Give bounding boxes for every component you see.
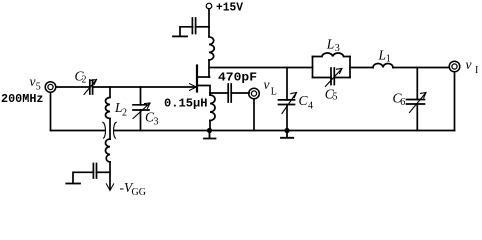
- bus ground bottom right segment: [114, 130, 454, 132]
- capacitor bypass bottom: right wire: [97, 171, 111, 173]
- terminal vI: [449, 61, 460, 72]
- wire drain vertical: [208, 60, 210, 77]
- tank right side: [349, 57, 351, 78]
- inductor L3: [313, 53, 351, 57]
- svg-text:v: v: [30, 74, 36, 89]
- wire tank to L1: [350, 67, 373, 69]
- capacitor C4 plates: [279, 100, 295, 105]
- node dot source ground: [207, 128, 212, 133]
- wire C4 branch: [286, 68, 288, 100]
- capacitor bypass top: right wire: [196, 26, 209, 28]
- wire drain stub: [197, 76, 210, 78]
- svg-text:v: v: [466, 57, 472, 72]
- wire C4 to bus: [286, 105, 288, 131]
- wire bypass bottom left: [73, 172, 93, 183]
- svg-text:C: C: [299, 93, 309, 108]
- arrow -VGG: [106, 184, 113, 191]
- wire L1 to vI: [393, 67, 449, 69]
- svg-text:200MHz: 200MHz: [1, 92, 44, 106]
- svg-text:I: I: [475, 65, 478, 76]
- wire choke to -VGG: [109, 162, 111, 189]
- svg-text:1: 1: [386, 54, 391, 65]
- wire source inductor to bus: [209, 121, 211, 131]
- wire L2 to choke (crosses bus): [109, 119, 111, 140]
- wire vI down to bus: [454, 72, 456, 131]
- wire bypass top left: [180, 27, 192, 36]
- inductor L2: [106, 98, 111, 119]
- svg-text:L: L: [271, 87, 277, 98]
- svg-text:470pF: 470pF: [218, 70, 257, 84]
- wire 470pF to vL: [231, 92, 249, 94]
- svg-text:6: 6: [400, 97, 405, 108]
- inductor RFC drain choke: [209, 37, 214, 60]
- terminal vL: [249, 88, 260, 99]
- wire 470pF branch: [210, 92, 228, 94]
- svg-text:L: L: [326, 36, 335, 51]
- ground bottom left: [66, 183, 80, 185]
- capacitor bypass bottom plates: [93, 164, 96, 179]
- tank L3/C5 left side: [312, 57, 314, 78]
- crossover hop marks: [103, 122, 116, 138]
- capacitor C2 plates: [90, 80, 93, 94]
- svg-text:3: 3: [335, 43, 340, 54]
- svg-text:v: v: [264, 77, 270, 92]
- capacitor C5 plates: [331, 68, 334, 85]
- svg-text:5: 5: [333, 92, 338, 103]
- capacitor C4 arrow: [282, 93, 297, 114]
- capacitor C3 arrow: [133, 103, 150, 119]
- wire C3 branch: [140, 87, 142, 105]
- svg-text:2: 2: [82, 75, 87, 86]
- svg-text:L: L: [378, 48, 387, 63]
- inductor L1: [373, 64, 393, 68]
- svg-text:GG: GG: [132, 187, 146, 196]
- svg-text:3: 3: [154, 117, 159, 128]
- capacitor C5 arrow: [326, 69, 343, 87]
- svg-text:2: 2: [122, 108, 127, 119]
- wire C6 to bus: [416, 104, 418, 131]
- capacitor 470pF plates: [228, 84, 231, 102]
- wire vL down to bus: [253, 99, 255, 131]
- transistor Q1 gate arrow: [190, 84, 197, 91]
- wire gate from input: [93, 86, 196, 88]
- wire input to C2: [56, 86, 90, 88]
- svg-text:5: 5: [36, 82, 41, 93]
- wire C6 branch: [416, 68, 418, 100]
- capacitor C5 bottom branch: [313, 77, 351, 79]
- transistor Q1 source stub: [197, 86, 210, 96]
- bus ground bottom left segment: [51, 130, 105, 132]
- ground top: [173, 35, 187, 37]
- svg-text:+15V: +15V: [216, 0, 244, 14]
- capacitor C6 arrow: [410, 93, 427, 113]
- ground C4: [281, 131, 293, 138]
- capacitor C2 arrow: [84, 80, 97, 95]
- inductor RFC gate choke: [106, 139, 111, 162]
- node dot C4 ground: [284, 128, 289, 133]
- inductor source 0.15uH: [210, 95, 215, 121]
- wire C3 to bus: [140, 110, 142, 131]
- wire v5 down: [50, 93, 52, 131]
- wire top drain to tank: [209, 67, 313, 69]
- wire L2 branch down: [109, 87, 111, 97]
- wire +15V feed down: [208, 9, 210, 37]
- capacitor C3 plates: [133, 105, 149, 110]
- terminal +15V: [206, 3, 212, 9]
- svg-text:0.15µH: 0.15µH: [164, 96, 208, 110]
- transistor Q1 channel: [196, 66, 198, 92]
- terminal v5: [45, 82, 56, 93]
- capacitor bypass top plates: [192, 18, 195, 34]
- capacitor C6 plates: [407, 100, 425, 105]
- ground source: [204, 131, 216, 139]
- svg-text:4: 4: [308, 101, 313, 112]
